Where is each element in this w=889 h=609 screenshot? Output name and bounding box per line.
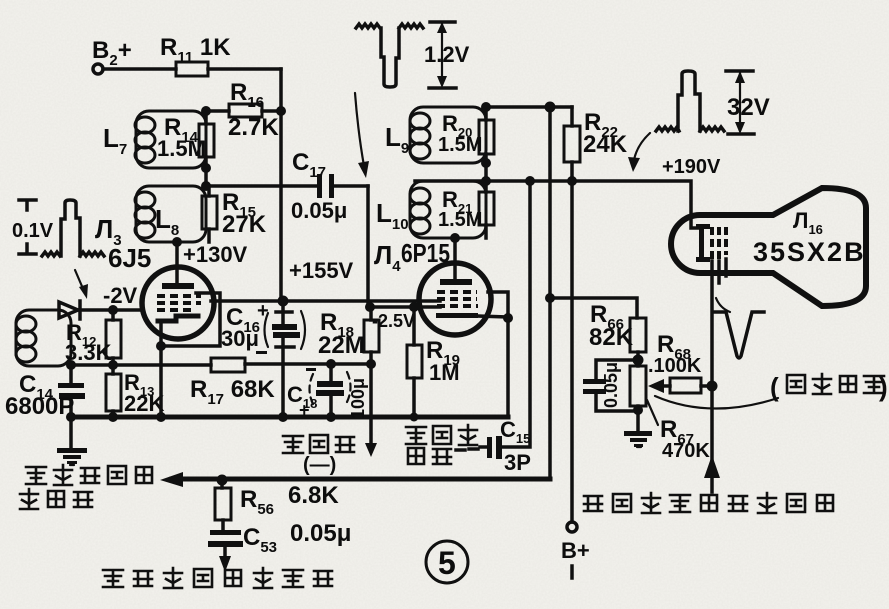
svg-text:0.05μ: 0.05μ	[601, 362, 621, 408]
svg-text:+190V: +190V	[662, 156, 721, 178]
svg-text:.100K: .100K	[648, 355, 702, 377]
6J5 cathode	[158, 316, 198, 321]
node R12 top	[108, 305, 118, 315]
resistor R56	[215, 488, 231, 520]
6P15 grids	[437, 290, 477, 294]
svg-text:(: (	[770, 372, 779, 402]
node L8 top	[201, 181, 211, 191]
wire plate supply top	[486, 105, 572, 109]
node cathode bottom	[156, 412, 166, 422]
resistor R17	[211, 358, 245, 372]
label from vertical scan oscillator	[584, 496, 602, 511]
tube 6J5 envelope	[142, 267, 214, 339]
svg-text:0.1V: 0.1V	[12, 220, 54, 242]
wire sync feed vertical	[548, 107, 552, 478]
wire L7 bottom to L8 top	[204, 168, 208, 186]
svg-text:1.2V: 1.2V	[424, 42, 470, 67]
svg-text:1.5M: 1.5M	[438, 134, 482, 156]
coil L8	[136, 186, 206, 242]
svg-text:B+: B+	[561, 538, 590, 563]
terminal B2+	[93, 64, 103, 74]
arrow up on drive wire	[704, 455, 720, 478]
capacitor C15	[480, 445, 487, 449]
wire R16 leads	[206, 109, 281, 113]
measure mark 0.1V bottom	[19, 244, 36, 254]
wire grid line B 6P15	[370, 305, 440, 309]
svg-text:24K: 24K	[583, 131, 628, 158]
node L8 bottom plate tap	[172, 237, 182, 247]
node R66 tap	[545, 293, 555, 303]
node C14 bottom	[66, 412, 76, 422]
svg-text:6800P: 6800P	[5, 393, 74, 420]
resistor R16	[229, 104, 262, 117]
ground below pot	[624, 431, 652, 436]
waveform negative spike at CRT	[714, 312, 764, 358]
measure mark 0.1V top	[19, 200, 36, 210]
svg-text:100μ: 100μ	[348, 378, 368, 419]
svg-text:27K: 27K	[222, 211, 267, 238]
node rail L10	[481, 176, 491, 186]
CRT grid electrode	[699, 226, 704, 260]
wire +190V rail	[415, 181, 698, 228]
node R16 right	[276, 106, 286, 116]
6J5 plate	[162, 283, 194, 289]
node L7 bottom	[201, 163, 211, 173]
node L10 bottom plate tap	[450, 233, 460, 243]
measure 1.2V	[429, 22, 456, 88]
node R68 right	[707, 381, 718, 392]
svg-text:6.8K: 6.8K	[288, 482, 339, 509]
label to sound channel	[406, 427, 426, 444]
svg-text:): )	[879, 372, 888, 402]
wiper arrow R68	[662, 384, 712, 388]
svg-text:+: +	[257, 300, 269, 322]
resistor R21	[479, 192, 494, 225]
node L7 top	[201, 106, 211, 116]
waveform 0.1V pulse	[42, 200, 104, 256]
coil L7	[136, 111, 206, 168]
wire grid drive from vertical oscillator	[710, 261, 714, 492]
svg-text:-2.5V: -2.5V	[372, 311, 415, 331]
svg-text:82K: 82K	[589, 324, 634, 351]
wire B2+ to R11	[103, 67, 176, 71]
svg-text:3P: 3P	[504, 450, 531, 475]
svg-text:0.05μ: 0.05μ	[291, 198, 347, 223]
resistor R68	[670, 378, 701, 393]
node R56 top	[217, 475, 228, 486]
resistor R20	[479, 120, 494, 154]
svg-text:35SX2B: 35SX2B	[753, 237, 866, 267]
resistor R19	[407, 345, 422, 378]
svg-text:+130V: +130V	[183, 242, 248, 267]
tube 6P15 envelope	[419, 263, 491, 335]
measure 32V	[726, 71, 754, 134]
label to horizontal sync separator	[103, 570, 123, 587]
svg-text:1.5M: 1.5M	[157, 136, 206, 161]
symbol circled 5	[426, 541, 468, 583]
capacitor 0.05u parallel	[596, 360, 638, 411]
node C18 bottom	[326, 412, 336, 422]
capacitor C14	[69, 365, 73, 417]
6J5 grids	[157, 294, 201, 298]
resistor R14	[199, 124, 214, 157]
node screen rail / C16	[278, 296, 289, 307]
CRT 35SX2B envelope	[671, 188, 866, 306]
curved arrow to rail	[634, 133, 650, 160]
wire diode to grid	[80, 308, 143, 312]
wire to negative bias arrow	[369, 364, 373, 446]
resistor R18	[364, 320, 379, 352]
wire L9 bottom to +190 rail	[484, 163, 488, 181]
node R12/R13	[108, 360, 118, 370]
wire bias rail	[71, 364, 371, 365]
node R66 bottom	[633, 355, 644, 366]
node R22 rail	[567, 176, 577, 186]
coil L10	[410, 181, 486, 238]
svg-text:-2V: -2V	[103, 283, 138, 308]
node R18 top / grid	[365, 302, 375, 312]
brightness adjust pointer curve	[655, 396, 778, 409]
svg-text:2.7K: 2.7K	[228, 114, 279, 141]
wire R11 to vertical	[208, 67, 281, 71]
resistor R22	[564, 126, 580, 162]
waveform 1.2V pulse	[356, 24, 423, 87]
wire C17 to 6P15 grid	[366, 186, 370, 307]
label to vertical sync separator	[26, 467, 46, 484]
wire plate lead 6J5	[175, 242, 179, 285]
capacitor C18 electrolytic	[329, 364, 333, 417]
resistor R66	[630, 318, 646, 352]
waveform 32V pulse	[656, 71, 724, 131]
node R19 top	[409, 302, 419, 312]
wire C17 coupling	[206, 184, 368, 188]
6P15 cathode	[436, 313, 478, 318]
potentiometer R67 body	[630, 366, 646, 406]
node R19 bottom	[410, 413, 419, 422]
svg-text:1M: 1M	[429, 360, 460, 385]
svg-text:5: 5	[438, 545, 456, 581]
resistor R15	[202, 196, 217, 229]
svg-text:32V: 32V	[727, 94, 770, 121]
svg-text:1.5M: 1.5M	[438, 209, 482, 231]
node rail C15 line	[525, 176, 535, 186]
6P15 plate	[440, 279, 472, 285]
wire cathode loop to grid1	[161, 293, 220, 346]
coil L9	[410, 107, 486, 163]
svg-text:470K: 470K	[662, 440, 710, 462]
node R13 bottom	[108, 412, 118, 422]
wire vertical from R11 down to screen rail	[279, 69, 283, 301]
svg-text:(—): (—)	[303, 454, 336, 476]
wire ground rail	[71, 415, 508, 420]
node L9 bottom	[481, 158, 491, 168]
svg-text:30μ: 30μ	[221, 326, 259, 351]
node C18 top	[326, 359, 336, 369]
resistor R13	[106, 374, 121, 411]
node C16 bottom	[278, 412, 288, 422]
arrow to vertical sync	[160, 472, 183, 487]
svg-text:22K: 22K	[124, 391, 164, 416]
node cathode branch	[156, 341, 166, 351]
svg-text:6P15: 6P15	[401, 238, 450, 268]
node C14 top	[66, 360, 76, 370]
capacitor C17	[317, 174, 322, 198]
wire R66 feed	[550, 298, 637, 318]
node top rail / sync line	[545, 102, 556, 113]
ground below C14	[69, 417, 73, 449]
wire cathode/screen to right	[478, 292, 508, 417]
node 6P15 right	[503, 313, 513, 323]
capacitor C53	[210, 530, 241, 535]
svg-text:+155V: +155V	[289, 258, 354, 283]
diode D	[59, 301, 80, 319]
CRT cathode dashes	[712, 227, 726, 259]
svg-text:0.05μ: 0.05μ	[290, 520, 351, 547]
node pot bottom	[633, 405, 643, 415]
node R18 bottom	[366, 359, 376, 369]
wire sync feed horizontal	[172, 477, 550, 482]
svg-text:6J5: 6J5	[108, 243, 151, 273]
arrow to diode	[75, 270, 84, 291]
node L9 top	[481, 102, 491, 112]
svg-text:22M: 22M	[318, 332, 365, 359]
capacitor C16 electrolytic	[281, 301, 285, 417]
resistor R11	[176, 62, 208, 76]
CRT leads below	[719, 259, 726, 283]
terminal B+ bottom	[567, 522, 577, 532]
arrow waveform to grid wire	[355, 93, 364, 166]
resistor R12	[106, 320, 121, 358]
label to negative voltage	[283, 436, 303, 453]
wire cathode down	[159, 321, 163, 417]
input coil	[16, 310, 71, 366]
wire screen rail 6J5 to 6P15	[211, 299, 440, 303]
